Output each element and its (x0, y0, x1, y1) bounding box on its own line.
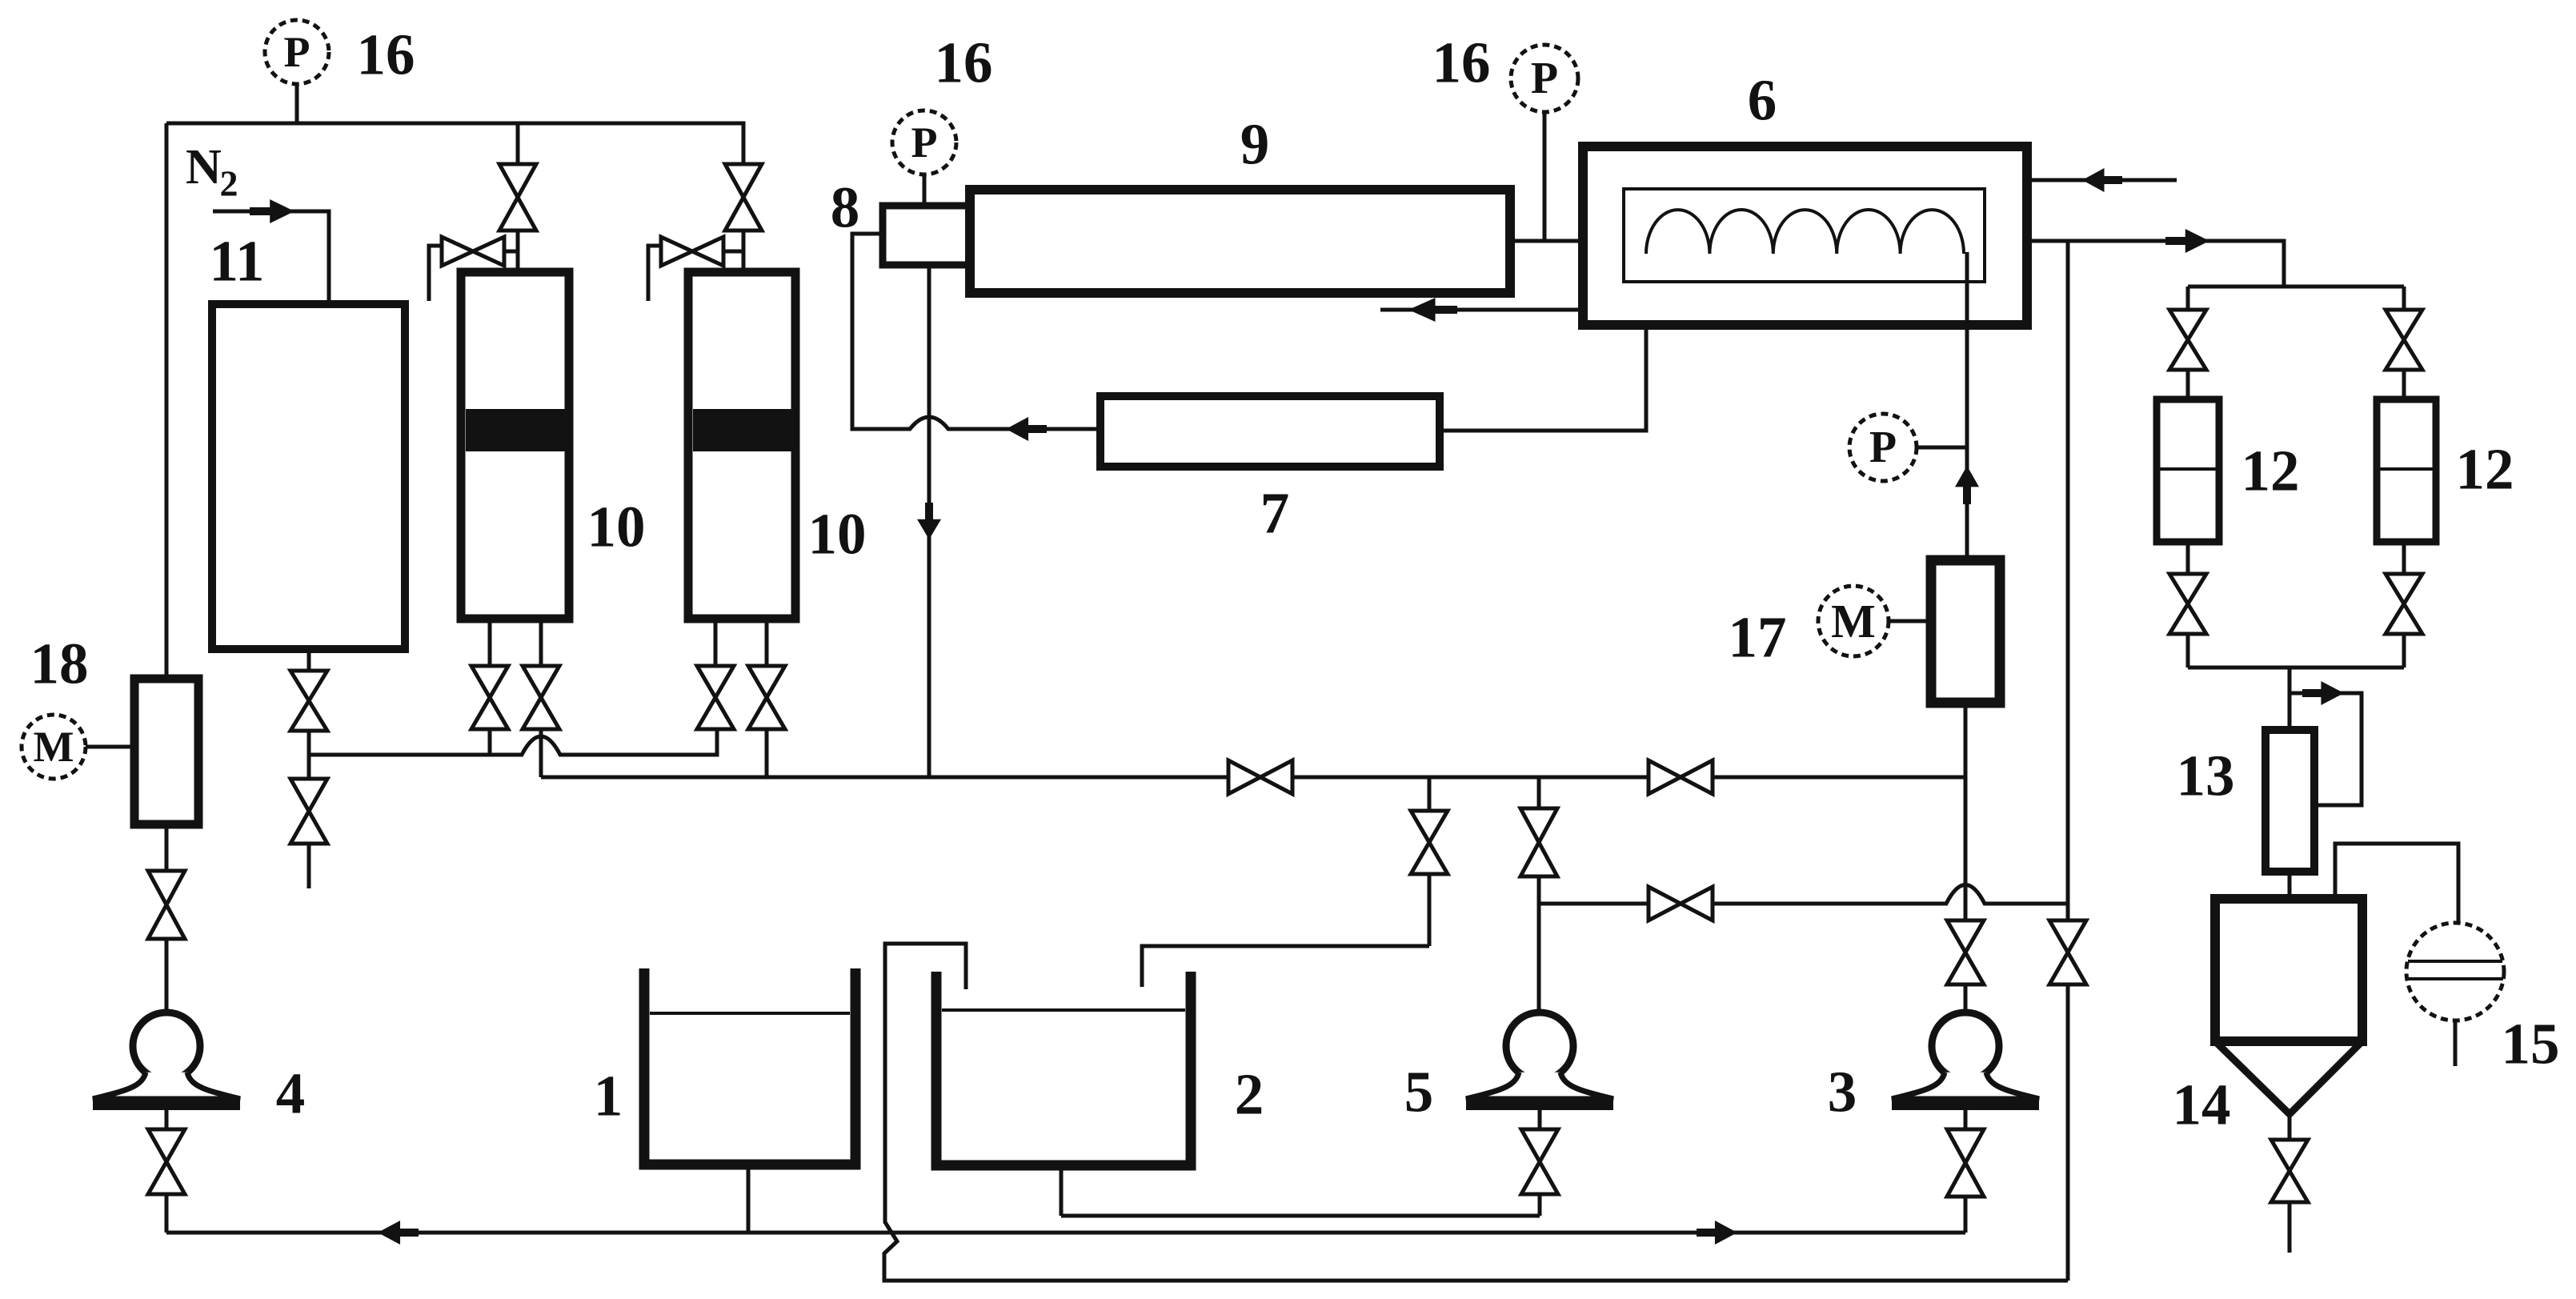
valve V4-drain (148, 1129, 185, 1162)
svg-text:17: 17 (1729, 605, 1787, 670)
wet gas meter 15 (2406, 923, 2504, 1020)
svg-text:1: 1 (594, 1064, 623, 1129)
wire coil to 17 (1965, 252, 1969, 560)
dryer 12b (2377, 399, 2436, 542)
wire 12a bottom stub (2186, 542, 2190, 574)
wire 13 bypass (2290, 693, 2362, 805)
pressure gauge P 16a (265, 20, 329, 84)
svg-text:7: 7 (1260, 481, 1290, 546)
valve V11-a (290, 671, 327, 701)
valve V3-drain (1947, 1129, 1984, 1163)
wire pump5 drain (1538, 1110, 1542, 1129)
svg-text:10: 10 (587, 495, 646, 559)
flow arrow into loop (1006, 417, 1047, 441)
svg-text:13: 13 (2177, 744, 2235, 808)
wire pump4 drain (165, 1110, 169, 1129)
pressure gauge P near 6 (1849, 414, 1917, 481)
wire branch 1923 (1537, 777, 1541, 808)
vessel 6 outer shell (1583, 146, 2027, 325)
flow arrow 6 top outlet (2082, 168, 2122, 192)
pump 4 (133, 1012, 200, 1080)
pump 5 (1506, 1012, 1573, 1080)
flow arrow jacket (1408, 298, 1457, 322)
flow arrow A-right (1697, 1221, 1737, 1245)
valve V-1923 (1520, 808, 1557, 843)
mixer 8 (883, 206, 970, 265)
wire recycle downcomer (2066, 241, 2070, 920)
wire 12 bottom manifold (2188, 666, 2404, 670)
wire left riser to buffer 18 (165, 123, 169, 679)
tank 1 (644, 968, 855, 1165)
wire 11 drain (307, 649, 311, 671)
vessel 7 (1100, 396, 1440, 467)
vessel 6 coil (1646, 210, 1964, 254)
buffer vessel 18 (134, 679, 198, 824)
pressure gauge P 16b (892, 110, 956, 174)
flow arrow A-left (378, 1221, 419, 1245)
valve V3-suction (1947, 920, 1984, 952)
wire dip tube to tank2 (1142, 946, 1429, 987)
tank 2 (936, 972, 1191, 1165)
wire valve drop 10a (516, 123, 520, 272)
wire top manifold (166, 122, 740, 126)
dryer 12a (2157, 399, 2219, 542)
svg-text:2: 2 (220, 163, 238, 204)
svg-text:16: 16 (357, 22, 415, 87)
wire 10b drain right (765, 619, 769, 666)
svg-text:P: P (1869, 423, 1897, 472)
valve V4-suction (148, 871, 185, 905)
valve V10a-L (471, 666, 508, 698)
wire 9 to 6 (1510, 239, 1624, 243)
wire pump3 drain (1964, 1110, 1968, 1129)
wire 8 drop to manifold (927, 265, 931, 777)
svg-text:15: 15 (2502, 1012, 2560, 1076)
svg-text:11: 11 (210, 229, 265, 294)
wire bottom line A (166, 1231, 1965, 1235)
valve VM2 on manifold (1649, 760, 1681, 794)
wire 6 exit header (2027, 241, 2284, 287)
svg-text:3: 3 (1828, 1060, 1857, 1125)
svg-text:5: 5 (1404, 1060, 1434, 1125)
wire 14 vent (2335, 844, 2458, 923)
vent valve 10a (442, 237, 473, 266)
svg-text:14: 14 (2173, 1072, 2231, 1137)
flow arrow to dryers (2165, 229, 2209, 253)
vessel 6 inner box (1624, 189, 1985, 282)
flow arrow up to coil (1955, 466, 1979, 504)
svg-text:N: N (186, 140, 222, 194)
flow arrow N2 (250, 199, 294, 223)
wire tank2 suction line (1061, 1214, 1540, 1218)
tank 11 (212, 304, 405, 649)
piston vessel 10a (461, 272, 569, 619)
separator 14 cone (2215, 1041, 2362, 1114)
valve V11-b (290, 779, 327, 812)
svg-text:9: 9 (1240, 112, 1270, 177)
wire tank1 outlet (747, 1165, 751, 1233)
svg-text:M: M (34, 723, 74, 771)
valve V12a-bot (2169, 574, 2206, 604)
back-pressure regulator 13 (2266, 730, 2314, 872)
wire 6 top outlet (2027, 178, 2177, 182)
valve V14 (2271, 1140, 2308, 1171)
svg-text:P: P (911, 118, 938, 166)
wire 12a top stub (2186, 370, 2190, 399)
wire main manifold (541, 776, 1965, 780)
valve V12a-top (2169, 310, 2206, 340)
pump 3 (1932, 1012, 1999, 1080)
vent valve 10b (661, 237, 692, 266)
separator 14 body (2215, 899, 2362, 1041)
valve VM1 on manifold (1228, 760, 1260, 794)
wire line1 transfer header (309, 729, 717, 755)
wire 18 to valve (165, 824, 169, 871)
flow arrow down on 8 drop (917, 503, 941, 539)
svg-text:16: 16 (935, 30, 993, 95)
svg-text:4: 4 (276, 1061, 306, 1126)
motor gauge M 18 (22, 715, 86, 779)
wire 12b bottom stub (2402, 542, 2406, 574)
wire recycle bottom return (884, 944, 2068, 1281)
valve V10b-R (748, 666, 785, 698)
svg-text:P: P (1531, 54, 1558, 103)
svg-text:16: 16 (1432, 30, 1491, 95)
wire 10b drain left (714, 619, 718, 666)
svg-text:8: 8 (831, 175, 860, 240)
flow arrow bypass (2302, 681, 2344, 705)
svg-text:2: 2 (1235, 1062, 1264, 1127)
valve V10a-top (499, 164, 536, 198)
valve V12b-top (2386, 310, 2422, 340)
valve V-recycle (2049, 920, 2086, 952)
metering pump 17 (1931, 560, 2000, 703)
valve V-1786 (1411, 811, 1448, 843)
wire 8 sample loop (852, 234, 1100, 429)
wire 12 top manifold (2188, 285, 2404, 289)
N2 feed wire (213, 211, 329, 304)
wire 10a drain left (488, 619, 492, 666)
motor gauge M 17 (1818, 586, 1889, 656)
svg-text:12: 12 (2241, 439, 2300, 503)
wire 17 to pump3 (1964, 703, 1968, 777)
svg-text:18: 18 (30, 631, 89, 696)
svg-text:M: M (1831, 595, 1876, 647)
valve V5-drain (1521, 1129, 1558, 1162)
valve V12b-bot (2386, 574, 2422, 604)
svg-text:6: 6 (1748, 68, 1777, 133)
wire 13 to 14 (2288, 872, 2292, 899)
vessel 9 reactor (970, 190, 1510, 293)
valve V10a-R (523, 666, 559, 698)
wire 6 jacket port (1380, 308, 1583, 312)
pressure gauge P 16c (1511, 45, 1578, 112)
svg-text:10: 10 (808, 502, 867, 567)
valve V10b-top (725, 164, 762, 198)
svg-text:P: P (284, 28, 310, 76)
svg-text:12: 12 (2456, 437, 2514, 502)
valve V10b-L (697, 666, 734, 698)
wire 7 to coil (1440, 252, 1646, 431)
wire 12b top stub (2402, 370, 2406, 399)
piston vessel 10b (688, 272, 795, 619)
wire 10a drain right (539, 619, 543, 666)
valve VB on branch (1649, 887, 1681, 920)
wire top corner 10b (740, 123, 743, 272)
wire branch 1129 (1539, 885, 2068, 904)
wire 14 drain (2288, 1114, 2292, 1140)
wire branch 1786 (1428, 777, 1432, 811)
